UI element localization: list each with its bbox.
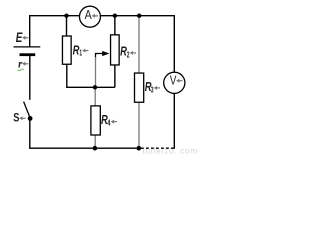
svg-text:3: 3 [151, 85, 154, 95]
svg-text:S: S [13, 110, 19, 124]
svg-text:tuifei10. com: tuifei10. com [143, 146, 198, 156]
svg-text:4: 4 [107, 117, 110, 127]
svg-text:r: r [18, 58, 23, 70]
svg-text:E: E [16, 30, 23, 45]
svg-text:V: V [170, 72, 177, 87]
svg-text:2: 2 [127, 49, 130, 59]
svg-text:A: A [85, 7, 92, 22]
svg-text:1: 1 [79, 48, 82, 58]
